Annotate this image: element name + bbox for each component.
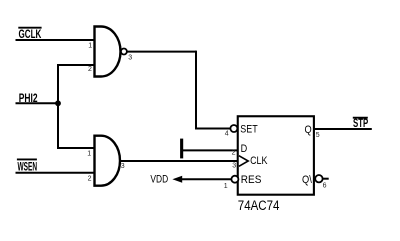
- U3 pin 4 number: [225, 130, 229, 137]
- svg-text:RES: RES: [241, 174, 262, 186]
- svg-text:Q: Q: [305, 124, 313, 136]
- wire PHI2 lower branch to U2 pin 1: [57, 147, 95, 149]
- U1 output bubble: [121, 49, 127, 55]
- svg-text:5: 5: [316, 132, 320, 139]
- VDD arrow head: [172, 176, 182, 183]
- svg-text:1: 1: [88, 43, 92, 50]
- U3 CLK edge triangle: [239, 156, 248, 167]
- svg-text:SET: SET: [240, 124, 258, 136]
- net WSEN label: [17, 159, 37, 173]
- wire PHI2 upper branch to U1 pin 2: [57, 64, 95, 66]
- U3 pin name D: [241, 143, 248, 155]
- U3 pin 1 number: [224, 183, 228, 190]
- svg-text:CLK: CLK: [250, 155, 268, 167]
- svg-text:3: 3: [121, 163, 125, 170]
- wire D tie to U3 pin 2: [183, 149, 239, 151]
- svg-text:Q\: Q\: [302, 174, 313, 186]
- U3 pin 6 number: [323, 183, 327, 190]
- U3 pin name RES: [241, 174, 262, 186]
- U3 RES input bubble: [231, 176, 238, 183]
- svg-text:D: D: [241, 143, 248, 155]
- U3 pin 5 number: [316, 132, 320, 139]
- U3 pin 3 number: [232, 162, 236, 169]
- wire U1 output to U3 SET (vertical): [195, 51, 197, 130]
- wire GCLK to U1 pin 1: [16, 39, 96, 41]
- wire PHI2 vertical branch: [57, 65, 59, 148]
- net GCLK label: [18, 28, 41, 41]
- net PHI2 label: [19, 93, 38, 105]
- U2 pin 1 number: [87, 151, 91, 158]
- svg-text:4: 4: [225, 130, 229, 137]
- svg-text:1: 1: [224, 183, 228, 190]
- and gate U2: [95, 136, 120, 186]
- junction PHI2 node: [55, 100, 61, 106]
- nand gate U1: [95, 27, 121, 77]
- U1 pin 1 number: [88, 43, 92, 50]
- wire VDD to U3 RES pin 1: [182, 178, 232, 180]
- svg-text:2: 2: [88, 176, 92, 183]
- svg-text:6: 6: [323, 183, 327, 190]
- wire WSEN to U2 pin 2: [16, 172, 96, 174]
- U3 pin name Q-bar: [302, 174, 313, 186]
- U1 pin 2 number: [88, 66, 92, 73]
- net STP label: [353, 118, 369, 130]
- svg-text:2: 2: [88, 66, 92, 73]
- svg-text:74AC74: 74AC74: [238, 198, 280, 213]
- wire U3 Q-bar stub: [323, 178, 329, 180]
- U2 pin 3 number: [121, 163, 125, 170]
- svg-text:1: 1: [87, 151, 91, 158]
- U3 SET input bubble: [230, 125, 237, 132]
- wire U2 output to U3 CLK pin 3: [120, 160, 239, 162]
- svg-text:3: 3: [232, 162, 236, 169]
- svg-text:STP: STP: [353, 118, 368, 130]
- U3 part value 74AC74: [238, 198, 280, 213]
- U3 pin 2 number: [232, 149, 236, 156]
- U1 pin 3 number: [128, 54, 132, 61]
- net VDD label: [150, 173, 168, 185]
- wire U3 Q output to STP: [314, 128, 372, 130]
- U3 Q-bar output bubble: [315, 175, 322, 182]
- svg-text:2: 2: [232, 149, 236, 156]
- wire U1 output to U3 SET (horizontal top): [127, 51, 196, 53]
- svg-text:VDD: VDD: [150, 173, 168, 185]
- U3 pin name SET: [240, 124, 258, 136]
- wire PHI2 to junction: [16, 102, 59, 104]
- tie-high bar on D input: [180, 139, 183, 159]
- U3 pin name Q: [305, 124, 313, 136]
- U2 pin 2 number: [88, 176, 92, 183]
- U3 pin name CLK: [250, 155, 268, 167]
- wire U1 output to U3 SET (horizontal bottom): [195, 128, 231, 130]
- svg-text:3: 3: [128, 54, 132, 61]
- flip-flop U3 74AC74 body: [238, 116, 314, 194]
